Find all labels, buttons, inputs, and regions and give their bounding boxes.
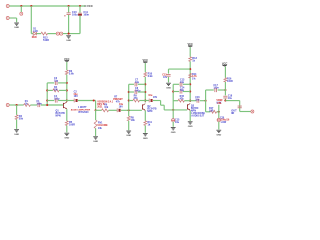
transistor Q1 [63,102,67,109]
wire C2 to corner [78,100,96,102]
svg-text:10u: 10u [175,121,180,124]
capacitor C8 (feedback s2) [135,90,137,94]
wire R16 down [224,82,226,96]
junction collector Q2 / rung2 [144,91,146,93]
resistor R13 [189,57,192,62]
wire s3 rung1 right [183,83,190,85]
label R15 [180,95,185,101]
svg-text:AUDIO BJT: AUDIO BJT [191,115,204,118]
label C11 [83,11,89,17]
junction VCC4 node [224,89,226,91]
wire R11 to ground [144,125,146,132]
svg-text:100n: 100n [83,14,89,17]
polarity mark C10 [64,15,65,16]
junction collector Q1 / rung2 [66,89,68,91]
net flag VCC at rail end [84,4,93,8]
wire C9 to corner [153,100,161,102]
wire bottom filter left [206,111,211,113]
svg-text:LED: LED [33,31,38,33]
junction rung3 left [46,99,48,101]
ground for R2 [14,130,19,136]
svg-text:NPN: NPN [56,114,61,117]
resistor R17 [210,110,216,113]
label R14 [192,73,197,81]
resistor R11 (emitter Q2) [144,121,147,126]
wire C20 to ground [218,122,220,130]
capacitor C4 (feedback) [55,98,57,102]
wire LED branch from x31 [31,33,33,35]
resistor R14 [189,73,192,78]
jumper pin 1 [56,32,59,35]
wire corner down to ground [16,18,18,22]
svg-text:100R: 100R [227,80,233,83]
ground for Q3 emitter [188,122,193,128]
resistor R8 (trim to ground) [127,116,130,121]
junction main line / stage3 base rail [172,109,174,111]
resistor R2 (bias) [15,115,18,120]
wire P3 to corner [9,17,16,19]
wire R13 to node [189,61,191,102]
svg-text:GND: GND [66,40,71,42]
wire collector to C2 [67,100,74,102]
svg-text:100R: 100R [69,124,75,127]
capacitor C15 (electrolytic to ground) [172,119,175,122]
svg-text:GND: GND [93,141,98,143]
label C8 [135,87,141,93]
wire VCC rail [9,5,85,7]
annotation version block [97,101,114,109]
resistor R5 (emitter Q1) [65,121,68,126]
port P3 (power input -) [6,17,9,20]
svg-text:16V: 16V [153,96,158,99]
label Q2 [147,105,156,113]
resistor R15 (feedback s3) [178,99,184,102]
transistor Q2 [142,104,145,111]
junction collector Q3 / rung1 [189,83,191,85]
svg-text:10R: 10R [209,110,214,113]
junction s3 rung2 left [172,90,174,92]
label RV1 [97,122,108,130]
svg-text:27k: 27k [134,97,139,100]
wire s3 rung2 left [173,91,179,93]
capacitor C7 (feedback s2) [135,82,137,86]
potentiometer RV1 (volume) [94,120,97,128]
junction collector Q3 / rung2 [189,90,191,92]
wire s2 rung2 right [138,91,146,93]
capacitor C19 (series out) [238,106,242,108]
wire corner down to main line [95,101,97,111]
junction collector Q1 / rung1 [66,82,68,84]
wire pot top [95,110,97,120]
port P2 [20,12,23,15]
annotation title block [71,106,91,114]
label OUT [231,108,237,115]
junction s2 rung2 left [128,91,130,93]
label R10 [148,72,153,78]
wire corner up to C11 [79,16,81,34]
wire C10 bottom [68,15,70,34]
wire s3 rung3 left [173,100,178,102]
wire to base Q3 [164,109,187,111]
wire branch down to C12 [168,69,170,74]
label C15 [175,118,180,124]
wire main line stage1 to stage2 [96,109,102,111]
resistor R1 (series input) [24,104,31,107]
label R16 [227,77,233,83]
junction main line / stage2 base rail [128,109,130,111]
svg-text:GND: GND [64,137,69,139]
transistor Q3 [187,104,190,111]
wire top filter right [218,89,226,91]
junction near corner x93.7 [93,99,95,101]
wire base rail stage3 [172,84,174,110]
wire s2 rung1 right [138,83,146,85]
wire R3 to collector rail [66,75,68,102]
label C12 [162,74,167,79]
capacitor C3 (feedback) [55,81,57,85]
wire C11 bottom [79,16,81,34]
junction base node Q1 [46,104,48,106]
label Q1 [56,110,65,118]
wire C10 top [68,6,70,12]
wire corner down 1 [160,101,162,106]
capacitor C13 (feedback s3) [180,82,182,86]
ground for C15 [171,128,176,134]
label net stub [217,103,222,105]
ground for C12 [166,83,171,89]
svg-text:GND: GND [143,138,148,140]
wire corner down to port [239,101,241,112]
label R1 [25,100,29,106]
label C3 [54,77,59,83]
port OUT (output) [251,110,254,113]
port IN (signal input) [6,104,9,107]
label C5 [119,103,124,108]
svg-text:LOW: LOW [221,122,227,124]
wire VCC1 to R3 [66,62,68,70]
resistor R3 (collector load Q1) [65,70,68,75]
resistor R6 (series) [102,109,109,112]
svg-text:NPN: NPN [147,110,152,113]
wire base rail stage1 [46,83,48,105]
wire C16 to output node [200,100,206,102]
label C16 [195,96,200,102]
wire emitter Q2 down [144,111,146,121]
svg-text:VCC: VCC [87,4,93,8]
label R13 [192,57,197,63]
label R2 [19,115,24,121]
junction input / R2 branch [16,104,18,106]
capacitor C10 (bypass) [67,13,71,15]
svg-text:10k: 10k [104,106,109,109]
label R4 [54,86,58,92]
label R9 [134,94,139,100]
wire collector Q3 to C16 [190,100,196,102]
junction collector Q2 / rung1 [144,83,146,85]
wire s2 rung3 left [129,100,133,102]
wire s2 rung1 left [129,83,134,85]
svg-text:10k: 10k [131,119,136,122]
junction collector Q1 / rung3 [66,99,68,101]
wire output rail [205,90,207,112]
capacitor C11 (polarized bypass) [78,13,82,16]
capacitor C20 (electrolytic) [217,118,220,121]
svg-text:10u: 10u [195,98,200,101]
label C10 [72,11,78,17]
label C9 [148,94,157,99]
label D1 color [32,37,37,39]
label C14 [180,86,185,92]
wire R6 to C5 [109,109,117,111]
junction collector Q3 / rung3 [189,100,191,102]
wire R2 branch down [16,105,18,115]
svg-text:16V: 16V [119,105,124,108]
wire jumper to gnd node [63,33,80,35]
svg-text:5.6k: 5.6k [69,73,74,76]
svg-text:47k: 47k [180,97,185,100]
label R17 [209,107,214,113]
junction on VCC rail at x31 [30,5,32,7]
label R12 [43,37,49,43]
svg-text:10u: 10u [228,98,233,100]
VCC flag stage2 [143,58,149,63]
resistor R10 (collector load Q2) [144,72,147,77]
wire VCC4 to R16 [224,66,226,77]
label Q3 [191,105,199,113]
label C2 [73,90,78,98]
wire jog right [161,104,165,106]
junction collector Q2 / rung3 [144,99,146,101]
label C4 [54,95,60,101]
svg-text:510R: 510R [43,39,49,42]
capacitor C5 (coupling into stage2) [117,108,120,112]
svg-text:3.9k: 3.9k [148,75,153,78]
jumper pin 2 [60,32,63,35]
svg-text:100u: 100u [72,14,78,17]
capacitor C9 (coupling out of stage2) [149,99,152,103]
svg-text:GND: GND [216,134,221,136]
wire from junction down to port P2 [20,6,22,12]
label C18 [228,96,233,100]
wire s3 rung2 right [183,91,190,93]
wire R1 to C1 [30,104,37,106]
wire emitter Q1 down [66,109,68,121]
label R3 [69,70,74,76]
VCC flag stage1 [64,57,70,62]
wire s3 branch down [172,110,174,119]
wire s3 rung1 left [173,83,179,85]
VCC flag stage3 [187,42,193,47]
wire R12 to jumper [48,33,57,35]
ground for P3 [14,23,19,29]
capacitor C14 (feedback s3) [180,89,182,93]
svg-text:16V: 16V [74,95,79,98]
wire top filter left [206,89,214,91]
wire s2 rung3 right [139,100,145,102]
wire pot to ground [95,128,97,136]
wire rung1 right [58,82,67,84]
svg-text:47k: 47k [116,101,121,104]
label R6 value [104,103,109,108]
ground for bypass caps [66,36,71,42]
junction output node [205,100,207,102]
capacitor C1 (input coupling) [38,103,40,107]
label R11 [148,121,153,127]
label output net [216,99,223,104]
wire C1 to base node [41,104,63,106]
svg-text:BTF2020: BTF2020 [79,111,90,114]
wire R2 to ground [16,120,18,129]
svg-text:RED: RED [32,37,37,39]
wire C11 top [79,6,81,13]
svg-text:ZBL: ZBL [217,103,222,105]
resistor R9 (feedback s2) [133,99,139,102]
wire C18 to node [224,99,226,101]
ground for R8 [126,131,131,137]
junction on VCC rail at x21 [20,5,22,7]
wire rung3 right [58,100,67,102]
svg-text:10p: 10p [54,80,59,83]
wire s3 rung3 right [184,100,190,102]
svg-text:1M: 1M [54,88,57,91]
svg-text:47u: 47u [163,76,168,79]
label C1 [36,100,42,106]
capacitor C12 (decoupling) [166,74,170,76]
ground for C20 [216,130,221,136]
label Q3 note [191,112,205,117]
wire stub up [218,105,220,112]
label C7 [135,79,140,85]
resistor R4 (feedback) [53,89,59,92]
junction gnd node [68,33,70,35]
wire VCC2 to R10 [144,63,146,72]
label C17 [213,84,219,90]
svg-text:GND: GND [14,27,19,29]
svg-text:GND: GND [166,87,171,89]
wire C15 to ground [172,122,174,127]
svg-text:GND: GND [14,134,19,136]
resistor R16 [224,78,227,82]
wire to output port [240,111,251,113]
resistor R12 [41,32,48,35]
capacitor C18 [223,96,227,98]
svg-text:10k: 10k [98,127,103,130]
wire down to C20 [218,112,220,119]
svg-text:100p: 100p [54,97,60,100]
svg-text:GND: GND [171,132,176,134]
wire input to R1 [9,104,23,106]
wire rung2 left [47,89,53,91]
svg-text:50k: 50k [19,118,24,121]
junction s2 rung3 left [128,99,130,101]
wire VCC3 to R13 [189,47,191,57]
junction rung2 left [46,89,48,91]
svg-text:GND: GND [126,135,131,137]
label C13 [180,79,185,85]
label C20 [220,117,230,124]
capacitor C2 (interstage coupling) [74,99,77,103]
circuit schematic 260x150 [0,0,260,150]
label R5 [69,121,75,127]
label R8 [131,116,136,122]
wire out line right [225,100,239,102]
wire rung2 right [59,89,67,91]
wire collector Q2 to C9 [145,100,149,102]
wire VCC rail down-left branch [30,6,32,34]
svg-text:8R: 8R [231,112,234,115]
ground for volume pot [93,137,98,143]
port P1 (power input +) [6,5,9,8]
wire R5 to ground [66,126,68,133]
junction VCC rail / C11 [79,5,81,7]
label D1 [33,29,38,33]
ground for Q1 emitter [64,133,69,139]
svg-text:100n: 100n [213,87,219,90]
svg-text:2021: 2021 [97,106,103,109]
label RV2 trim [113,96,123,104]
junction R17 / C20 [218,111,220,113]
junction C18 / out line [224,100,226,102]
wire R17 to junction [217,111,219,113]
wire trim branch down [128,110,130,116]
wire R10 to collector rail [144,77,146,103]
LED D1 [33,32,36,35]
wire emitter Q3 to ground [189,111,191,122]
junction decoupling node [189,68,191,70]
wire corner down 2 [163,105,165,110]
wire C12 to ground [168,77,170,83]
capacitor C17 (filter) [215,88,217,92]
wire R8 to ground [128,121,130,130]
wire C5 to base Q2 [121,109,142,111]
junction VCC rail / C10 [68,5,70,7]
ground for Q2 emitter [143,134,148,140]
capacitor C16 (output coupling) [197,99,199,103]
junction main line / volume pot [95,109,97,111]
svg-text:GND: GND [188,126,193,128]
wire rung1 left [47,82,54,84]
wire LED to R12 [37,33,41,35]
wire decoupling branch [169,68,191,70]
wire s2 rung2 left [129,91,134,93]
wire rung3 left [47,100,54,102]
VCC flag output [222,61,228,66]
wire base rail stage2 [128,84,130,110]
